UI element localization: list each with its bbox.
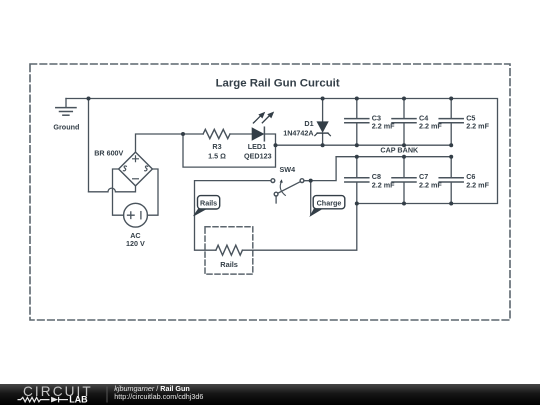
LED D: LED1 (252, 112, 273, 141)
wire: rails resistor to bottom cap rail (242, 204, 356, 251)
wire: from second row rail down and left to switch (304, 157, 336, 181)
capacitor C7 (392, 157, 416, 204)
resistor Rails (load) (216, 245, 243, 255)
rails subcircuit dashed box (205, 227, 253, 274)
svg-text:1.5 Ω: 1.5 Ω (208, 152, 226, 161)
svg-text:LED1: LED1 (248, 142, 266, 151)
svg-text:Ground: Ground (53, 123, 79, 132)
capacitor C6 (439, 157, 463, 204)
capacitor C8 (345, 157, 369, 204)
resistor R3 (203, 129, 230, 138)
svg-text:2.2 mF: 2.2 mF (466, 181, 489, 190)
svg-text:Charge: Charge (317, 198, 342, 207)
footer separator line (106, 387, 108, 403)
svg-text:BR 600V: BR 600V (94, 148, 123, 157)
wire: bridge right AC lead down to source (147, 169, 158, 215)
svg-text:Large Rail Gun Curcuit: Large Rail Gun Curcuit (216, 78, 340, 90)
svg-text:http://circuitlab.com/cdhj3d6: http://circuitlab.com/cdhj3d6 (114, 392, 203, 401)
wire: second row top rail (336, 156, 451, 158)
svg-text:D1: D1 (304, 119, 313, 128)
wire: bottom loop with hop over AC lead, to bridge - terminal (89, 186, 136, 192)
svg-text:Rails: Rails (220, 260, 238, 269)
svg-text:120 V: 120 V (126, 239, 145, 248)
wire: LED1 cathode right, down and loop back under R3 (183, 134, 276, 167)
capacitor C5 (439, 99, 463, 146)
svg-text:SW4: SW4 (280, 165, 296, 174)
AC source V1 circle (124, 203, 148, 227)
zener diode D1 (315, 99, 331, 146)
wire: R3 to LED1 (230, 133, 252, 135)
svg-text:LAB: LAB (69, 395, 88, 405)
svg-text:CAP BANK: CAP BANK (380, 146, 419, 155)
footer bar (0, 384, 540, 405)
wire: from ground junction down to bridge bottom loop (88, 99, 90, 192)
ground symbol (56, 99, 76, 116)
svg-text:2.2 mF: 2.2 mF (466, 122, 489, 131)
net flag Rails (194, 196, 220, 216)
wire: bridge + terminal up and right to R3 (136, 134, 204, 152)
svg-text:Rails: Rails (200, 198, 217, 207)
bridge rectifier BR (119, 152, 153, 186)
net flag Charge (310, 196, 345, 216)
capacitor C4 (392, 99, 416, 146)
switch SW4 (195, 179, 304, 250)
wire: bridge left AC lead down to source (113, 169, 124, 215)
capacitor C3 (345, 99, 369, 146)
wire: mid rail y=145 from loop to C5 column (276, 144, 452, 146)
wire: top rail from ground to right side, down right edge to bottom cap rail (66, 99, 498, 204)
svg-text:1N4742A: 1N4742A (283, 128, 313, 137)
svg-text:QED123: QED123 (244, 152, 272, 161)
junction dots (87, 97, 454, 206)
svg-text:R3: R3 (212, 142, 221, 151)
schematic dashed border frame (30, 64, 510, 320)
wire: switch right terminal to charge node (304, 181, 311, 215)
logo resistor-diode squiggle (18, 397, 69, 403)
